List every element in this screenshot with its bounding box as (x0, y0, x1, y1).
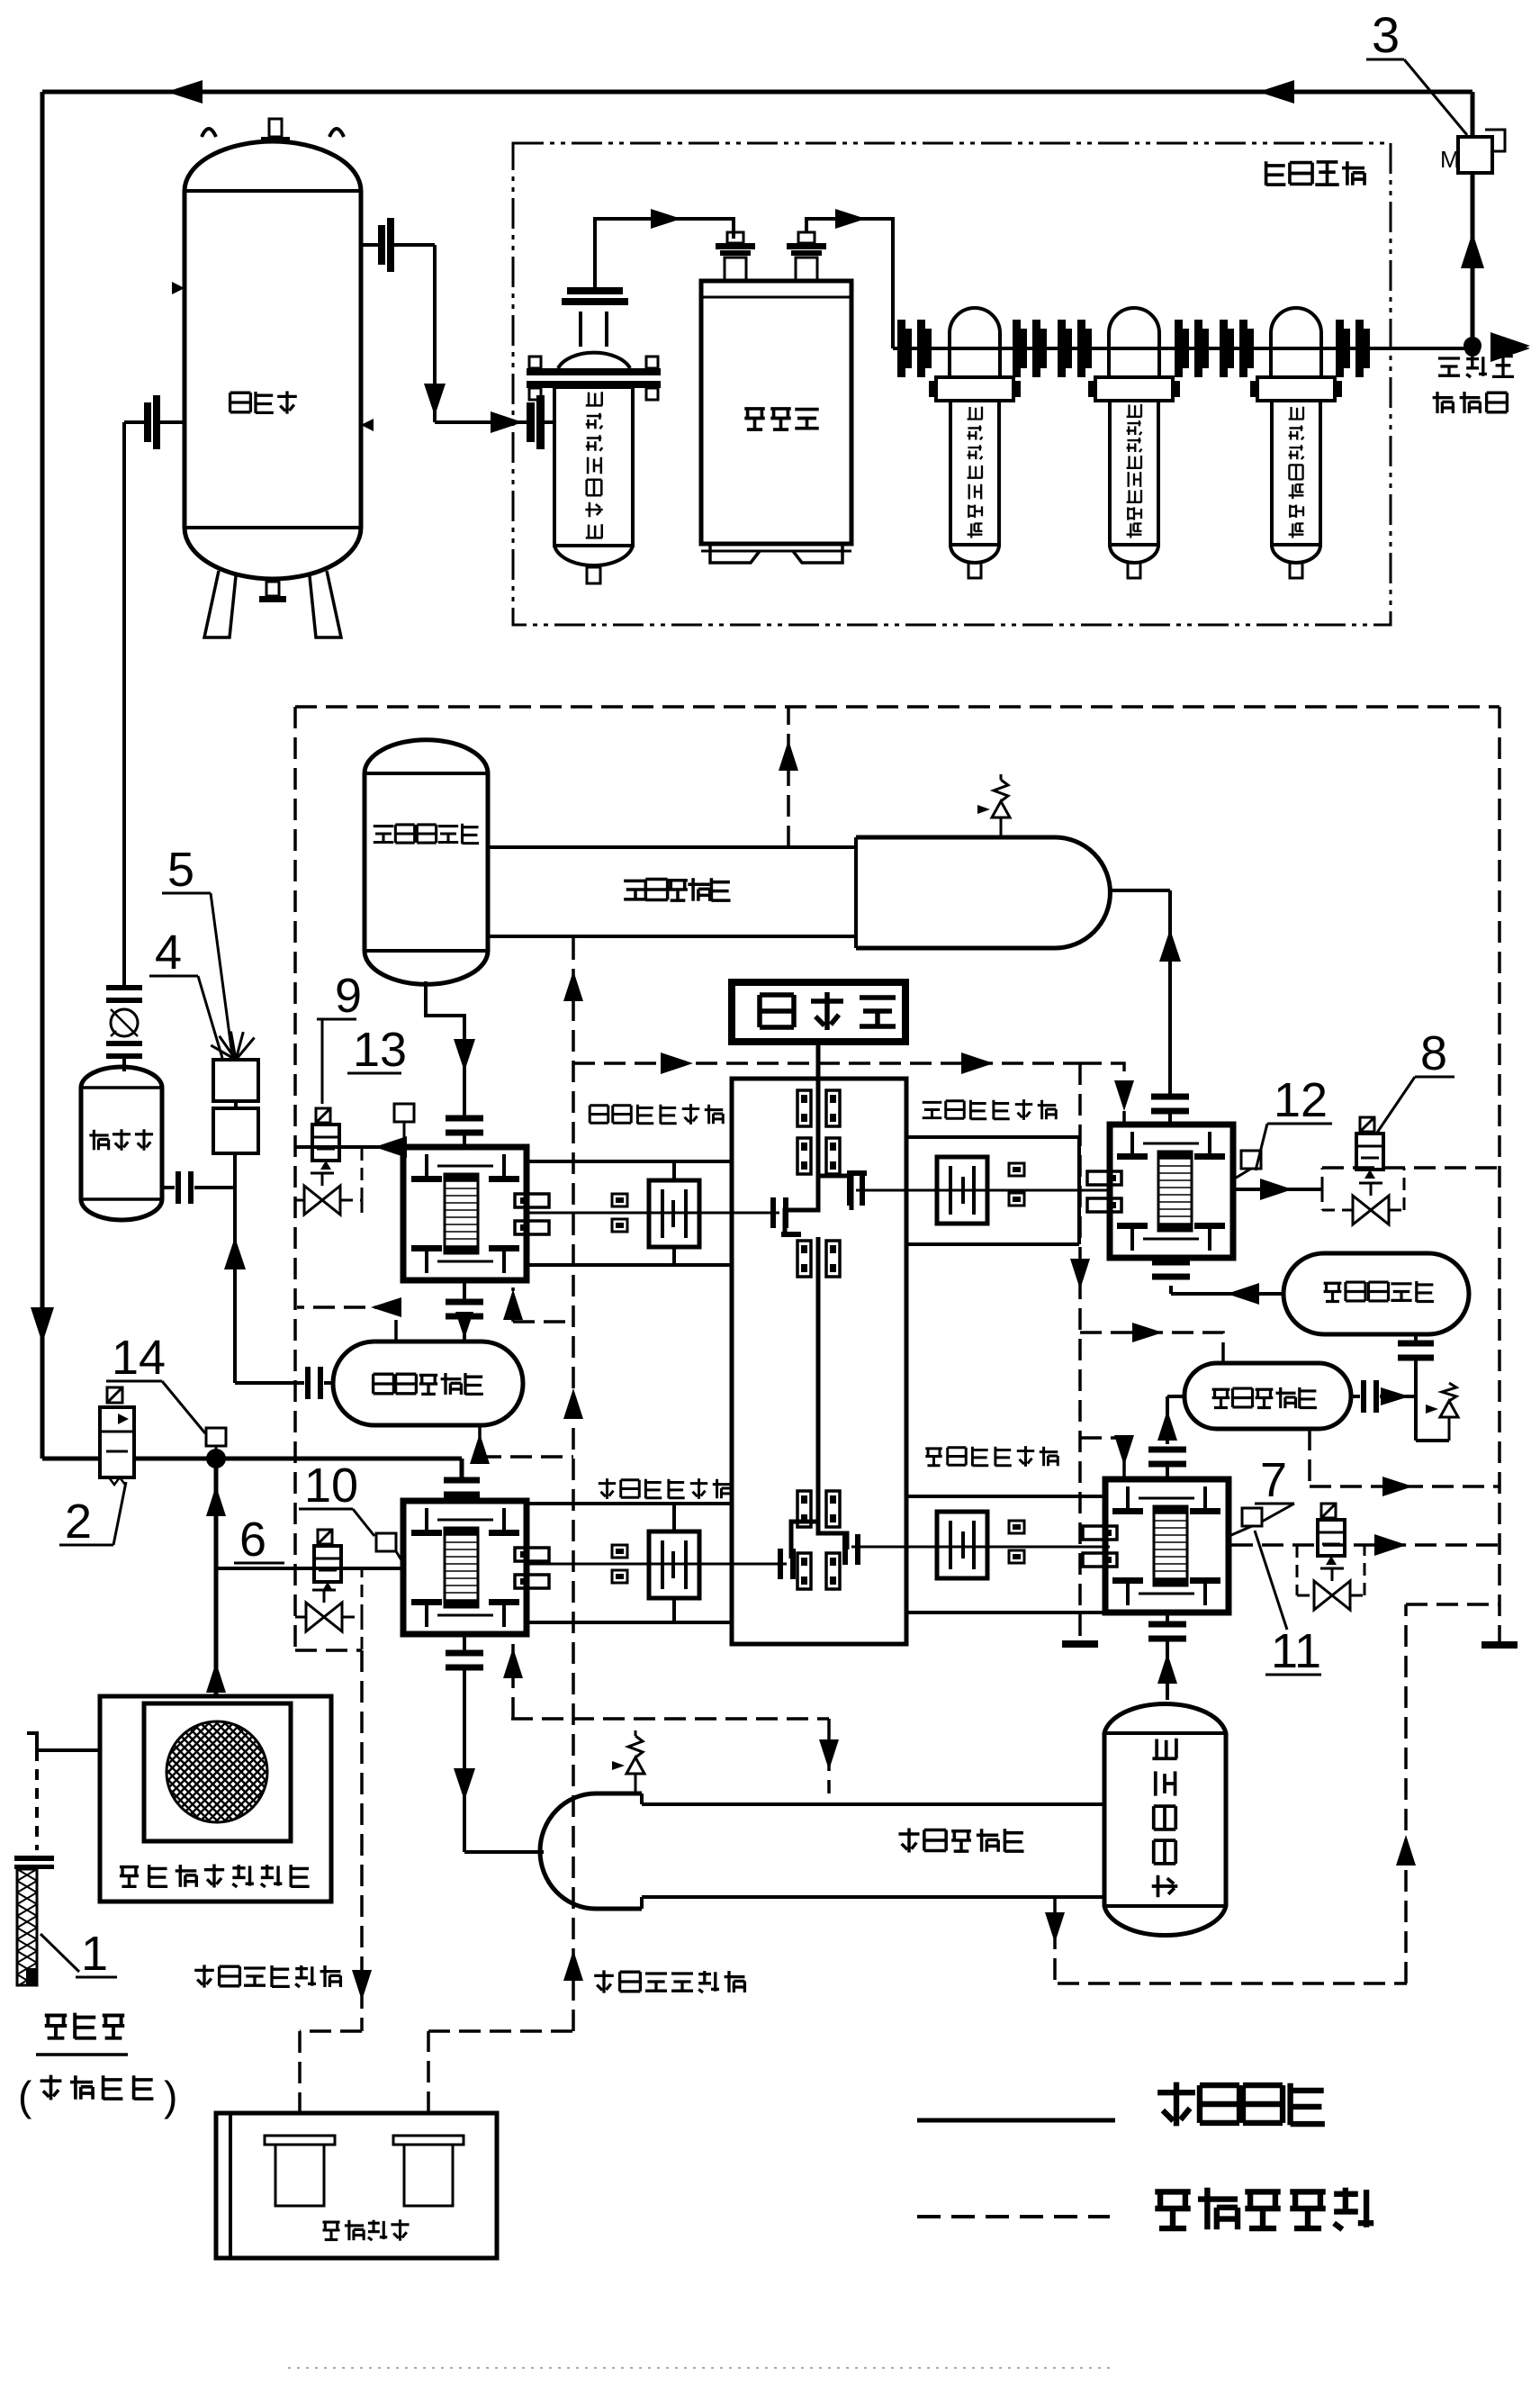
svg-text:M: M (1440, 146, 1460, 173)
svg-text:11: 11 (1271, 1624, 1321, 1678)
svg-text:8: 8 (1420, 1026, 1447, 1080)
svg-text:(: ( (18, 2073, 32, 2119)
svg-text:6: 6 (239, 1513, 266, 1567)
svg-text:1: 1 (81, 1927, 108, 1981)
svg-text:2: 2 (65, 1495, 92, 1549)
svg-text:9: 9 (335, 969, 362, 1023)
svg-text:12: 12 (1274, 1073, 1328, 1127)
svg-text:14: 14 (112, 1331, 166, 1385)
svg-text:10: 10 (304, 1459, 358, 1513)
svg-text:): ) (164, 2073, 177, 2119)
svg-text:3: 3 (1372, 6, 1400, 63)
svg-text:4: 4 (155, 926, 182, 980)
svg-text:7: 7 (1260, 1453, 1287, 1507)
svg-text:5: 5 (167, 843, 194, 897)
svg-text:13: 13 (353, 1023, 407, 1077)
